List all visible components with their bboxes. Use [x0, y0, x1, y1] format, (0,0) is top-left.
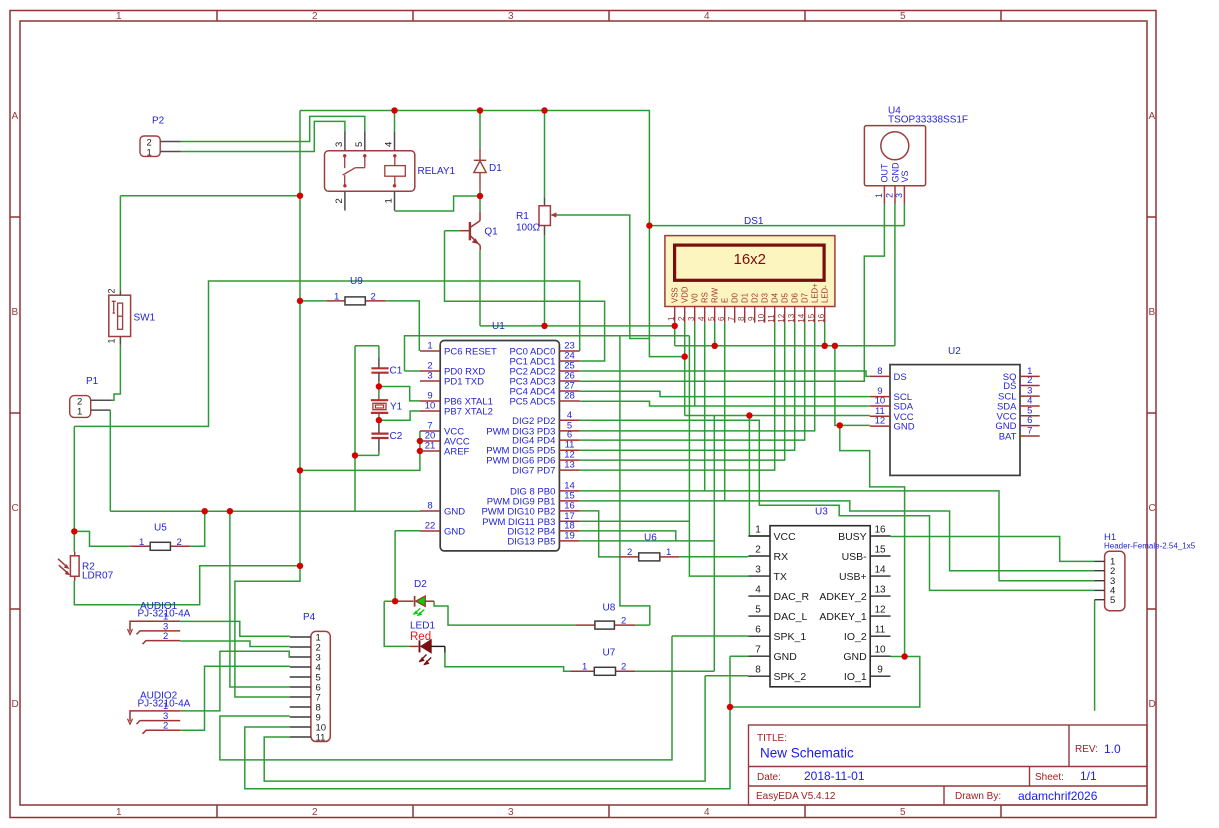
connector P4 — [290, 612, 331, 744]
TITLE BLOCK — [749, 725, 1148, 805]
wire U1 pin11 to DS1 pin13 — [580, 323, 795, 451]
svg-text:6: 6 — [1027, 415, 1032, 426]
svg-text:B: B — [1149, 307, 1156, 318]
svg-text:D2: D2 — [751, 293, 760, 303]
svg-text:R1: R1 — [516, 211, 529, 222]
svg-text:4: 4 — [567, 410, 572, 421]
svg-text:6: 6 — [755, 625, 761, 636]
svg-text:PC6 RESET: PC6 RESET — [444, 347, 497, 358]
svg-text:Y1: Y1 — [390, 402, 403, 413]
svg-text:PD1 TXD: PD1 TXD — [444, 377, 484, 388]
wire AUDIO1 pin2 to P4 pin2 — [180, 641, 290, 647]
wire +V to U4 VS — [649, 204, 904, 226]
svg-text:3: 3 — [427, 371, 432, 382]
svg-text:2: 2 — [334, 198, 345, 203]
wire U9 pin1 to rail — [300, 300, 327, 302]
node AREF pin21 — [417, 448, 423, 454]
wire U3 SPK2 to P4 pin11 — [264, 676, 748, 781]
svg-text:1: 1 — [77, 406, 82, 417]
wire U6 pin1 to U3 RX — [679, 556, 748, 558]
wire U1 pin18 stub — [580, 531, 676, 541]
svg-text:SPK_1: SPK_1 — [774, 631, 807, 643]
svg-text:PJ-3210-4A: PJ-3210-4A — [138, 698, 191, 709]
svg-text:2: 2 — [177, 537, 182, 548]
svg-text:D: D — [12, 699, 19, 710]
svg-text:16: 16 — [874, 525, 886, 536]
wire LDR bottom loop — [74, 566, 300, 605]
wire DS1 pin5 down — [714, 323, 716, 346]
svg-text:V0: V0 — [691, 293, 700, 303]
wire Q1 base to U1 pin24 — [445, 231, 605, 361]
svg-text:D6: D6 — [791, 293, 800, 303]
wire U1 pin19 stub — [580, 540, 714, 542]
wire XTAL2 to U1 pin10 — [379, 411, 420, 420]
svg-text:21: 21 — [425, 441, 436, 452]
svg-text:2: 2 — [677, 316, 686, 321]
svg-text:PJ-3210-4A: PJ-3210-4A — [138, 609, 191, 620]
svg-text:2: 2 — [621, 662, 626, 673]
svg-text:3: 3 — [508, 807, 514, 818]
svg-text:6: 6 — [717, 316, 726, 321]
wire relay pin4 to rail — [394, 111, 396, 132]
svg-text:Drawn By:: Drawn By: — [955, 791, 1001, 802]
LCD DS1 — [665, 216, 835, 323]
svg-text:DIG7 PD7: DIG7 PD7 — [512, 466, 555, 477]
svg-text:8: 8 — [427, 501, 432, 512]
svg-text:4: 4 — [704, 807, 710, 818]
svg-text:8: 8 — [755, 665, 761, 676]
svg-text:D5: D5 — [781, 292, 790, 303]
svg-text:13: 13 — [787, 313, 796, 322]
audio jack AUDIO2 — [128, 691, 191, 734]
svg-text:VDD: VDD — [681, 286, 690, 303]
svg-text:12: 12 — [874, 605, 886, 616]
svg-text:15: 15 — [874, 545, 886, 556]
svg-text:100Ω: 100Ω — [516, 223, 541, 234]
wire U1 pin13 to DS1 pin11 — [580, 323, 775, 470]
wire +V rail to P4 pin7 — [235, 566, 300, 697]
node GND-xtal — [352, 452, 358, 458]
svg-text:EasyEDA V5.4.12: EasyEDA V5.4.12 — [756, 791, 836, 802]
node XTAL2 — [376, 417, 382, 423]
wire U1 pin22 GND to D2 node — [395, 531, 420, 602]
wire +V left rail x300 — [299, 111, 301, 566]
photoresistor R2 — [58, 552, 114, 582]
svg-text:2: 2 — [627, 547, 632, 558]
node GND-U3pin10 — [901, 653, 907, 659]
wire LDR top — [73, 426, 75, 551]
connector P1 — [70, 376, 112, 417]
svg-text:C: C — [1149, 503, 1156, 514]
svg-text:A: A — [1149, 111, 1156, 122]
diode D1 — [474, 148, 486, 191]
wire GND to U3 right side — [840, 425, 905, 656]
svg-text:1: 1 — [667, 316, 676, 321]
svg-text:12: 12 — [777, 313, 786, 322]
svg-text:RELAY1: RELAY1 — [418, 166, 456, 177]
relay RELAY1 — [325, 131, 456, 210]
svg-text:2: 2 — [1027, 375, 1032, 386]
svg-text:AREF: AREF — [444, 447, 470, 458]
svg-text:2: 2 — [107, 288, 117, 293]
wire U1 pin26 to U4 OUT — [580, 204, 885, 381]
svg-text:VSS: VSS — [671, 287, 680, 303]
svg-text:R/W: R/W — [711, 287, 720, 303]
wire U9 pin2 to U1 pin1 — [386, 301, 420, 351]
svg-text:GND: GND — [995, 421, 1016, 432]
wire U1 pin4 to H1 pin4 — [580, 420, 1095, 590]
wire Q1 emitter to GND net — [479, 191, 481, 326]
svg-text:DIG2 PD2: DIG2 PD2 — [512, 416, 555, 427]
wire U1 pin25 to U2 pin8 — [580, 371, 870, 376]
svg-text:1: 1 — [139, 537, 144, 548]
svg-text:RS: RS — [701, 292, 710, 303]
node AVCC pin20 — [417, 438, 423, 444]
resistor U8 — [575, 602, 635, 629]
svg-text:16: 16 — [817, 313, 826, 322]
node rail-U9 — [297, 298, 303, 304]
wire GND net y326 — [480, 325, 675, 327]
svg-text:5: 5 — [354, 142, 365, 147]
svg-text:1: 1 — [116, 807, 122, 818]
wire LDR to U1 pin23 ADC0 — [74, 281, 579, 426]
MCU U1 — [420, 321, 580, 551]
wire U1 pin16 to U6 pin2 — [580, 511, 620, 557]
wire GND to P4 pin10 — [245, 707, 730, 789]
svg-text:3: 3 — [894, 193, 904, 198]
node rail-SW1 — [297, 193, 303, 199]
wire U1 pin2 RXD net — [405, 336, 690, 371]
svg-text:C2: C2 — [390, 431, 403, 442]
wire +V down to DS1 VDD — [649, 226, 684, 357]
svg-text:4: 4 — [384, 142, 395, 147]
wire U1 pin27 to U2 pin9 SCL — [580, 391, 870, 396]
svg-text:8: 8 — [877, 366, 882, 377]
node GND-U2pin12 — [837, 422, 843, 428]
wire P2 pin1 to relay pin3 — [181, 121, 345, 151]
crystal Y1 — [371, 397, 403, 417]
switch SW1 — [107, 288, 156, 344]
svg-text:5: 5 — [707, 316, 716, 321]
svg-text:IO_1: IO_1 — [844, 671, 867, 683]
svg-text:14: 14 — [797, 313, 806, 322]
svg-text:LDR07: LDR07 — [82, 571, 114, 582]
svg-text:16x2: 16x2 — [734, 251, 767, 268]
wire D2 LED1 chain — [384, 601, 409, 646]
svg-text:2: 2 — [371, 292, 376, 303]
svg-text:D: D — [1149, 699, 1156, 710]
svg-text:P1: P1 — [86, 376, 99, 387]
node LDR-U5 — [71, 528, 77, 534]
wire VDD bus to U2 pin11 — [685, 415, 870, 417]
svg-text:15: 15 — [807, 313, 816, 322]
wire U1 pin6 to DS1 pin14 — [580, 323, 805, 440]
svg-text:Q1: Q1 — [484, 227, 498, 238]
svg-text:PB7 XTAL2: PB7 XTAL2 — [444, 407, 493, 418]
wire DS1 pin16 down — [824, 323, 826, 346]
svg-text:10: 10 — [425, 401, 436, 412]
svg-text:U5: U5 — [154, 523, 167, 534]
node rail-D1 — [477, 107, 483, 113]
wire relay pin1 to D1 node — [395, 196, 481, 211]
svg-text:GND: GND — [444, 507, 465, 518]
svg-text:VCC: VCC — [774, 531, 797, 543]
wire XTAL1 to U1 pin9 — [379, 387, 420, 401]
wire U1 pin28 to U2 pin10 SDA — [580, 401, 870, 406]
svg-text:New Schematic: New Schematic — [760, 746, 854, 761]
wire U1 pin15 to H1 pin2 — [580, 501, 1095, 571]
svg-text:5: 5 — [1110, 595, 1115, 606]
wire H1 pin5 down — [1094, 600, 1096, 711]
wire VDD to U3 pin1 — [749, 416, 770, 537]
svg-text:D2: D2 — [414, 579, 427, 590]
transistor Q1 — [460, 211, 480, 250]
svg-text:D0: D0 — [731, 292, 740, 303]
svg-text:RX: RX — [774, 551, 789, 563]
wire DS1 pin2 VDD down — [684, 323, 686, 416]
wire LED feed riser to U8 — [620, 336, 650, 625]
svg-text:1: 1 — [755, 525, 761, 536]
svg-text:D1: D1 — [489, 163, 502, 174]
node D1-Q1 — [477, 193, 483, 199]
wire U5 pin2 to GND rail — [190, 511, 205, 546]
svg-text:PC5 ADC5: PC5 ADC5 — [509, 397, 555, 408]
RTC U2 — [870, 346, 1040, 475]
wire DS1 pin1 VSS down — [674, 323, 676, 346]
DFPlayer U3 — [748, 507, 890, 687]
node GND-R1 — [541, 323, 547, 329]
svg-text:IO_2: IO_2 — [844, 631, 867, 643]
svg-text:SW1: SW1 — [134, 313, 156, 324]
svg-text:C: C — [12, 503, 19, 514]
node D2 anode — [392, 598, 398, 604]
wire GND riser to P4 pin6 — [230, 511, 290, 687]
svg-text:2: 2 — [312, 807, 318, 818]
svg-text:adamchrif2026: adamchrif2026 — [1018, 789, 1098, 803]
svg-text:D7: D7 — [801, 293, 810, 303]
svg-text:3: 3 — [687, 316, 696, 321]
svg-text:ADKEY_2: ADKEY_2 — [819, 591, 866, 603]
svg-text:14: 14 — [874, 565, 886, 576]
svg-text:D3: D3 — [761, 293, 770, 303]
node rail-AVCC — [297, 467, 303, 473]
svg-text:C1: C1 — [390, 366, 403, 377]
node GND-DS1pin5 — [712, 343, 718, 349]
svg-text:U7: U7 — [603, 648, 616, 659]
svg-text:TX: TX — [774, 571, 787, 583]
wire U3 pin7 GND riser — [730, 656, 748, 707]
svg-text:B: B — [12, 307, 19, 318]
node GND-DS1pin1 — [672, 323, 678, 329]
wire D1 top to rail — [479, 111, 481, 148]
svg-text:9: 9 — [877, 665, 883, 676]
svg-text:8: 8 — [737, 316, 746, 321]
capacitor C1 — [371, 358, 402, 382]
wire GND to U2 pin12 — [835, 346, 870, 426]
svg-text:7: 7 — [727, 316, 736, 321]
svg-text:13: 13 — [564, 460, 575, 471]
svg-text:DAC_R: DAC_R — [774, 591, 810, 603]
svg-text:GND: GND — [843, 651, 867, 663]
svg-text:2: 2 — [755, 545, 761, 556]
svg-text:1: 1 — [107, 338, 117, 343]
svg-text:D4: D4 — [771, 292, 780, 303]
svg-text:5: 5 — [900, 807, 906, 818]
header H1 — [1095, 532, 1196, 611]
svg-text:U1: U1 — [492, 321, 505, 332]
node GND-branch — [832, 343, 838, 349]
svg-text:1.0: 1.0 — [1104, 742, 1121, 756]
potentiometer R1 — [516, 197, 558, 235]
svg-text:16: 16 — [564, 500, 575, 511]
node GND-U3pin7 — [727, 704, 733, 710]
svg-text:11: 11 — [875, 625, 886, 636]
svg-text:P4: P4 — [303, 612, 316, 623]
svg-text:1: 1 — [334, 292, 339, 303]
svg-text:1: 1 — [582, 662, 587, 673]
svg-text:U3: U3 — [815, 507, 828, 518]
svg-text:USB+: USB+ — [839, 571, 867, 583]
svg-text:BAT: BAT — [999, 432, 1017, 443]
wire SW1 pin1 to P1 pin2 — [112, 345, 121, 401]
svg-text:4: 4 — [697, 316, 706, 321]
IR receiver U4 — [864, 106, 968, 204]
svg-text:10: 10 — [874, 645, 886, 656]
svg-text:DS: DS — [1003, 381, 1016, 392]
svg-text:TITLE:: TITLE: — [757, 733, 787, 744]
svg-text:D1: D1 — [741, 293, 750, 303]
wire AUDIO2 pin2 to P4 pin4 — [180, 666, 290, 730]
svg-text:DS: DS — [894, 372, 907, 383]
svg-text:SPK_2: SPK_2 — [774, 671, 807, 683]
svg-text:TSOP33338SS1F: TSOP33338SS1F — [888, 115, 968, 126]
svg-text:PWM DIG10 PB2: PWM DIG10 PB2 — [481, 506, 555, 517]
svg-text:OUT: OUT — [880, 163, 890, 183]
svg-text:11: 11 — [767, 314, 776, 323]
node XTAL1 — [376, 383, 382, 389]
svg-text:1: 1 — [116, 11, 122, 22]
capacitor C2 — [371, 424, 402, 452]
svg-text:22: 22 — [425, 521, 436, 532]
wire DS1 pin3 down — [694, 323, 696, 406]
wire P2 pin2 to relay pin5 — [181, 116, 365, 141]
svg-text:GND: GND — [890, 162, 900, 183]
svg-text:5: 5 — [900, 11, 906, 22]
svg-text:7: 7 — [1027, 426, 1032, 437]
svg-text:ADKEY_1: ADKEY_1 — [819, 611, 866, 623]
LED LED1 red — [409, 621, 445, 666]
LED D2 green — [398, 579, 434, 616]
svg-text:P2: P2 — [152, 116, 165, 127]
svg-text:GND: GND — [774, 651, 798, 663]
svg-text:2: 2 — [884, 193, 894, 198]
svg-text:1/1: 1/1 — [1080, 769, 1097, 783]
resistor U9 — [327, 276, 386, 305]
node GND-DS1pin16 — [822, 343, 828, 349]
wire R1 wiper to +V — [558, 215, 650, 339]
wire crystal ground rail — [355, 346, 379, 512]
svg-text:4: 4 — [755, 585, 761, 596]
wire U3 BUSY to H1 pin1 — [891, 537, 1095, 562]
svg-text:Header-Female-2.54_1x5: Header-Female-2.54_1x5 — [1104, 542, 1196, 551]
node rail-R1 — [541, 107, 547, 113]
wire U1 pin5 to DS1 pin15 — [580, 323, 815, 431]
audio jack AUDIO1 — [128, 601, 191, 644]
svg-text:BUSY: BUSY — [838, 531, 867, 543]
resistor U7 — [571, 648, 636, 676]
wire R1 bottom — [544, 235, 546, 326]
svg-text:Red: Red — [410, 631, 431, 643]
svg-text:E: E — [721, 298, 730, 303]
svg-text:2: 2 — [312, 11, 318, 22]
wire U1 pin12 to DS1 pin12 — [580, 323, 785, 460]
svg-text:2: 2 — [621, 615, 626, 626]
svg-text:28: 28 — [564, 391, 575, 402]
wire R1 top — [544, 111, 546, 198]
svg-text:U2: U2 — [948, 346, 961, 357]
svg-text:LED-: LED- — [821, 285, 830, 303]
wire D2 to U8 pin1 — [434, 601, 575, 625]
svg-text:Sheet:: Sheet: — [1035, 772, 1064, 783]
svg-text:DAC_L: DAC_L — [774, 611, 808, 623]
svg-text:12: 12 — [875, 416, 886, 427]
wire DS1 pin6 down — [724, 323, 726, 501]
wire AUDIO2 pin1 to P4 pin3 — [180, 651, 290, 711]
svg-text:2018-11-01: 2018-11-01 — [804, 769, 865, 783]
node GND-U5 — [202, 508, 208, 514]
resistor U5 — [131, 523, 190, 551]
svg-text:11: 11 — [316, 733, 326, 744]
connector P2 — [140, 116, 181, 159]
wire U1 pin17 to U3 TX riser — [580, 520, 690, 522]
svg-text:DIG13 PB5: DIG13 PB5 — [507, 536, 555, 547]
svg-text:1: 1 — [147, 147, 152, 158]
wire DS1 pin4 down — [704, 323, 706, 491]
wire U7 pin2 riser — [635, 416, 714, 672]
svg-text:10: 10 — [757, 313, 766, 322]
svg-text:U8: U8 — [603, 602, 616, 613]
svg-text:1: 1 — [874, 193, 884, 198]
wire GND rail — [110, 510, 420, 512]
svg-text:4: 4 — [704, 11, 710, 22]
wire GND bottom bus — [730, 657, 920, 708]
node rail-relay4 — [391, 107, 397, 113]
wire U3 SPK1 to P4 pin9 — [220, 636, 749, 760]
svg-text:3: 3 — [755, 565, 761, 576]
svg-text:1: 1 — [384, 198, 395, 203]
svg-text:U9: U9 — [350, 276, 363, 287]
svg-text:GND: GND — [444, 527, 465, 538]
svg-text:GND: GND — [894, 422, 915, 433]
svg-text:Date:: Date: — [757, 772, 781, 783]
svg-text:19: 19 — [564, 530, 575, 541]
node VDD-U3VCC — [746, 412, 752, 418]
svg-text:U6: U6 — [644, 532, 657, 543]
svg-text:9: 9 — [747, 316, 756, 321]
wire AVCC AREF — [300, 431, 420, 470]
svg-text:7: 7 — [755, 645, 761, 656]
wire rail to SW1 — [120, 196, 300, 291]
resistor U6 — [619, 532, 679, 561]
node VDD-DS1pin2 — [682, 353, 688, 359]
wire GND net y346 — [675, 204, 895, 346]
svg-text:13: 13 — [874, 585, 886, 596]
svg-text:USB-: USB- — [842, 551, 868, 563]
wire U5 pin1 to LDR node — [74, 531, 130, 546]
svg-text:3: 3 — [334, 142, 345, 147]
wire LED1 to U7 pin1 — [445, 653, 575, 672]
wire C1 top — [378, 346, 380, 456]
